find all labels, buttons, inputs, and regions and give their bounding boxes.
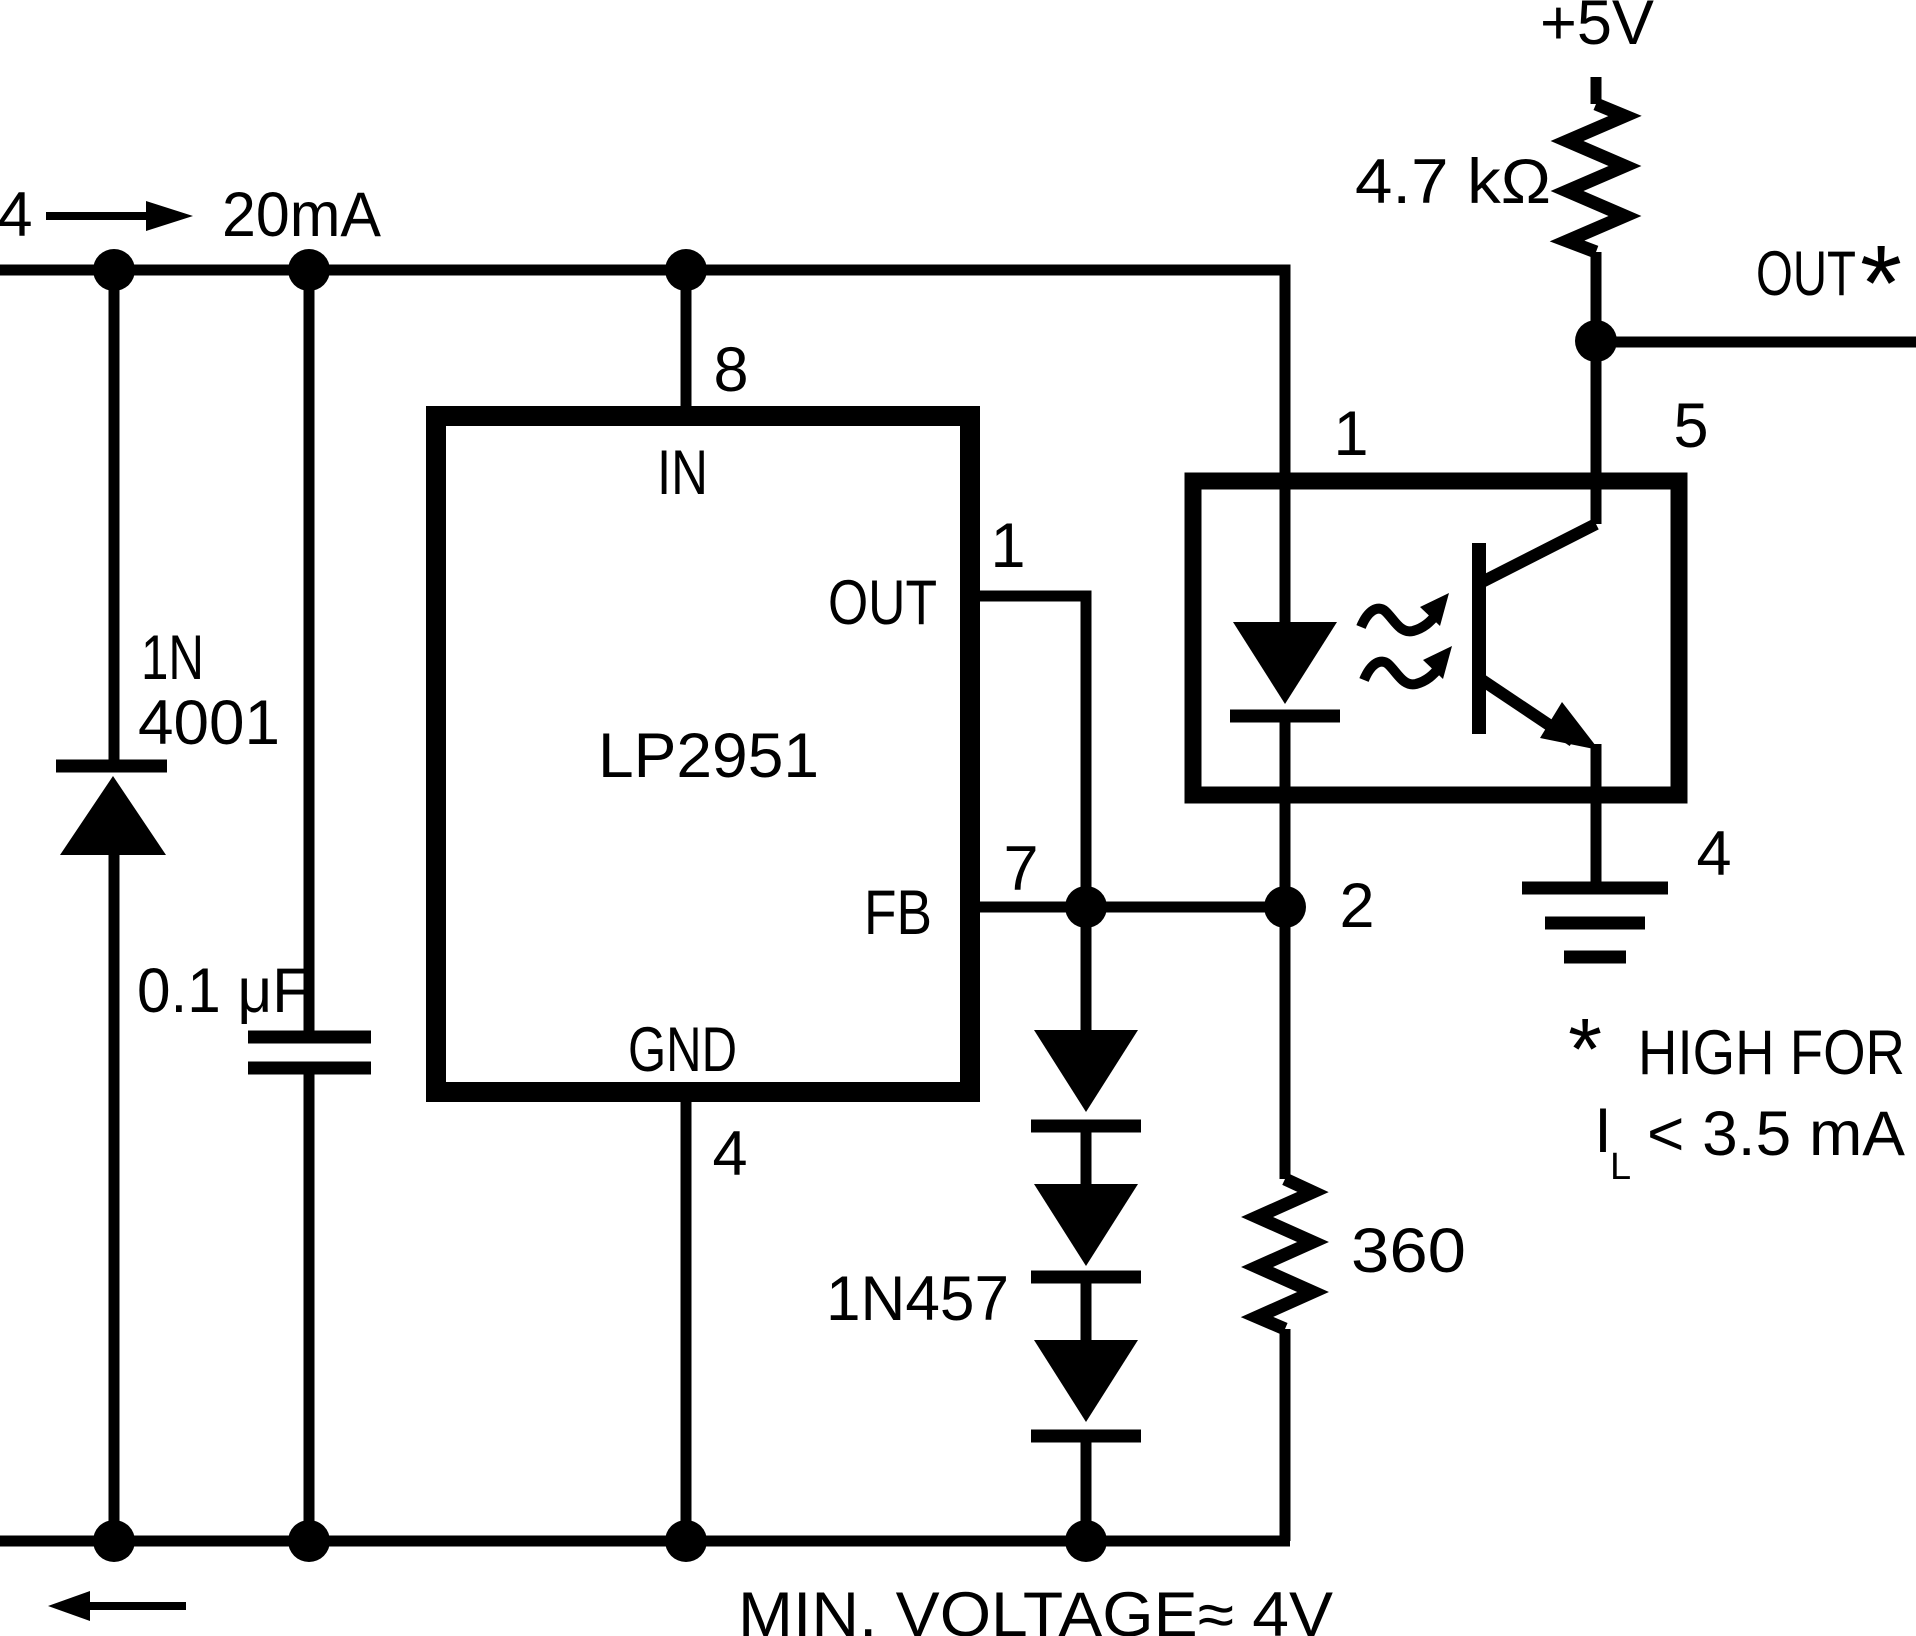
- wire 1N4001 branch upper segment: [109, 270, 120, 760]
- svg-text:8: 8: [713, 335, 748, 405]
- phototransistor collector diagonal: [1482, 524, 1596, 582]
- svg-text:*: *: [1860, 222, 1902, 343]
- svg-text:4.7 kΩ: 4.7 kΩ: [1355, 147, 1551, 217]
- svg-text:LP2951: LP2951: [598, 721, 819, 791]
- junction node 2: [1264, 886, 1306, 928]
- diode D2 1N457: [1031, 1184, 1141, 1277]
- wire OUT* output: [1596, 337, 1916, 348]
- svg-text:+5V: +5V: [1540, 0, 1654, 58]
- svg-text:7: 7: [1003, 834, 1038, 904]
- capacitor C1 0.1uF: [248, 1037, 371, 1068]
- wire resistor 360 bottom lead: [1280, 1329, 1291, 1541]
- ground symbol: [1522, 888, 1668, 957]
- svg-text:4001: 4001: [138, 688, 280, 758]
- svg-text:GND: GND: [628, 1015, 737, 1085]
- svg-text:1: 1: [1333, 399, 1368, 469]
- junction node top rail at 1N4001: [93, 249, 135, 291]
- diode D1 1N457: [1031, 1030, 1141, 1126]
- wire resistor 360 top lead: [1280, 907, 1291, 1179]
- wire LP2951 FB pin to node 2: [970, 902, 1284, 913]
- wire LED cathode to node 2: [1280, 722, 1291, 907]
- svg-text:2: 2: [1339, 871, 1374, 941]
- svg-text:4: 4: [1696, 819, 1731, 889]
- resistor R1 4.7 kOhm zigzag: [1567, 104, 1625, 252]
- junction node top rail at capacitor: [288, 249, 330, 291]
- svg-text:IN: IN: [657, 438, 708, 508]
- phototransistor emitter arrowhead: [1540, 702, 1599, 750]
- wire 1N4001 branch lower segment: [109, 850, 120, 1541]
- wire capacitor branch lower segment: [304, 1072, 315, 1541]
- diode D3 1N457: [1031, 1340, 1141, 1436]
- svg-text:OUT: OUT: [828, 568, 937, 638]
- svg-text:0.1 μF: 0.1 μF: [137, 956, 309, 1026]
- junction node OUT*: [1575, 320, 1617, 362]
- junction node rail at GND pin: [665, 1520, 707, 1562]
- svg-text:4: 4: [0, 180, 33, 250]
- svg-text:HIGH FOR: HIGH FOR: [1638, 1018, 1905, 1088]
- junction node FB pin 7: [1065, 886, 1107, 928]
- arrow current direction top left: [46, 201, 193, 231]
- resistor R2 360 zigzag: [1257, 1179, 1313, 1329]
- light arrow upper: [1361, 593, 1449, 631]
- svg-text:*: *: [1568, 1001, 1602, 1098]
- svg-text:L: L: [1610, 1146, 1631, 1188]
- svg-text:20mA: 20mA: [222, 180, 381, 250]
- diode D4 1N4001 pointing up: [56, 766, 167, 855]
- junction node rail at diode string: [1065, 1520, 1107, 1562]
- wire +5V lead: [1591, 77, 1602, 104]
- wire resistor 4.7k bottom lead: [1591, 252, 1602, 341]
- opto-coupler U2 box: [1193, 481, 1679, 795]
- svg-text:5: 5: [1673, 391, 1708, 461]
- phototransistor emitter diagonal: [1482, 680, 1573, 741]
- wire diode D1-D2 link: [1081, 1130, 1092, 1186]
- junction node rail at capacitor: [288, 1520, 330, 1562]
- svg-text:4: 4: [712, 1119, 747, 1189]
- wire LP2951 pin 8 lead: [681, 270, 692, 416]
- wire top rail with corner down to opto LED anode: [0, 270, 1285, 622]
- arrow current direction bottom left: [48, 1591, 186, 1621]
- IC U1 LP2951 box: [436, 416, 970, 1092]
- wire opto collector lead pin 5: [1591, 341, 1602, 524]
- LED inside opto pointing down: [1230, 622, 1340, 716]
- junction node top rail at pin 8: [665, 249, 707, 291]
- svg-text:FB: FB: [864, 878, 932, 948]
- svg-text:MIN. VOLTAGE≈ 4V: MIN. VOLTAGE≈ 4V: [738, 1580, 1333, 1636]
- junction node rail at 1N4001: [93, 1520, 135, 1562]
- light arrow lower: [1364, 646, 1452, 684]
- svg-text:1N: 1N: [141, 623, 204, 693]
- wire diode string top lead: [1081, 907, 1092, 1033]
- phototransistor Q1 base bar: [1472, 543, 1486, 734]
- wire capacitor branch upper segment: [304, 270, 315, 1033]
- wire diode string bottom lead: [1081, 1440, 1092, 1541]
- svg-text:360: 360: [1351, 1216, 1466, 1286]
- wire LP2951 OUT pin to feedback node: [970, 596, 1086, 907]
- svg-text:< 3.5 mA: < 3.5 mA: [1647, 1099, 1905, 1169]
- wire LP2951 GND pin lead: [681, 1092, 692, 1541]
- svg-text:1: 1: [990, 511, 1025, 581]
- svg-text:1N457: 1N457: [826, 1264, 1009, 1334]
- svg-text:OUT: OUT: [1756, 239, 1856, 309]
- wire bottom ground rail: [0, 1536, 1290, 1547]
- wire diode D2-D3 link: [1081, 1281, 1092, 1342]
- wire opto emitter lead pin 4: [1591, 744, 1602, 884]
